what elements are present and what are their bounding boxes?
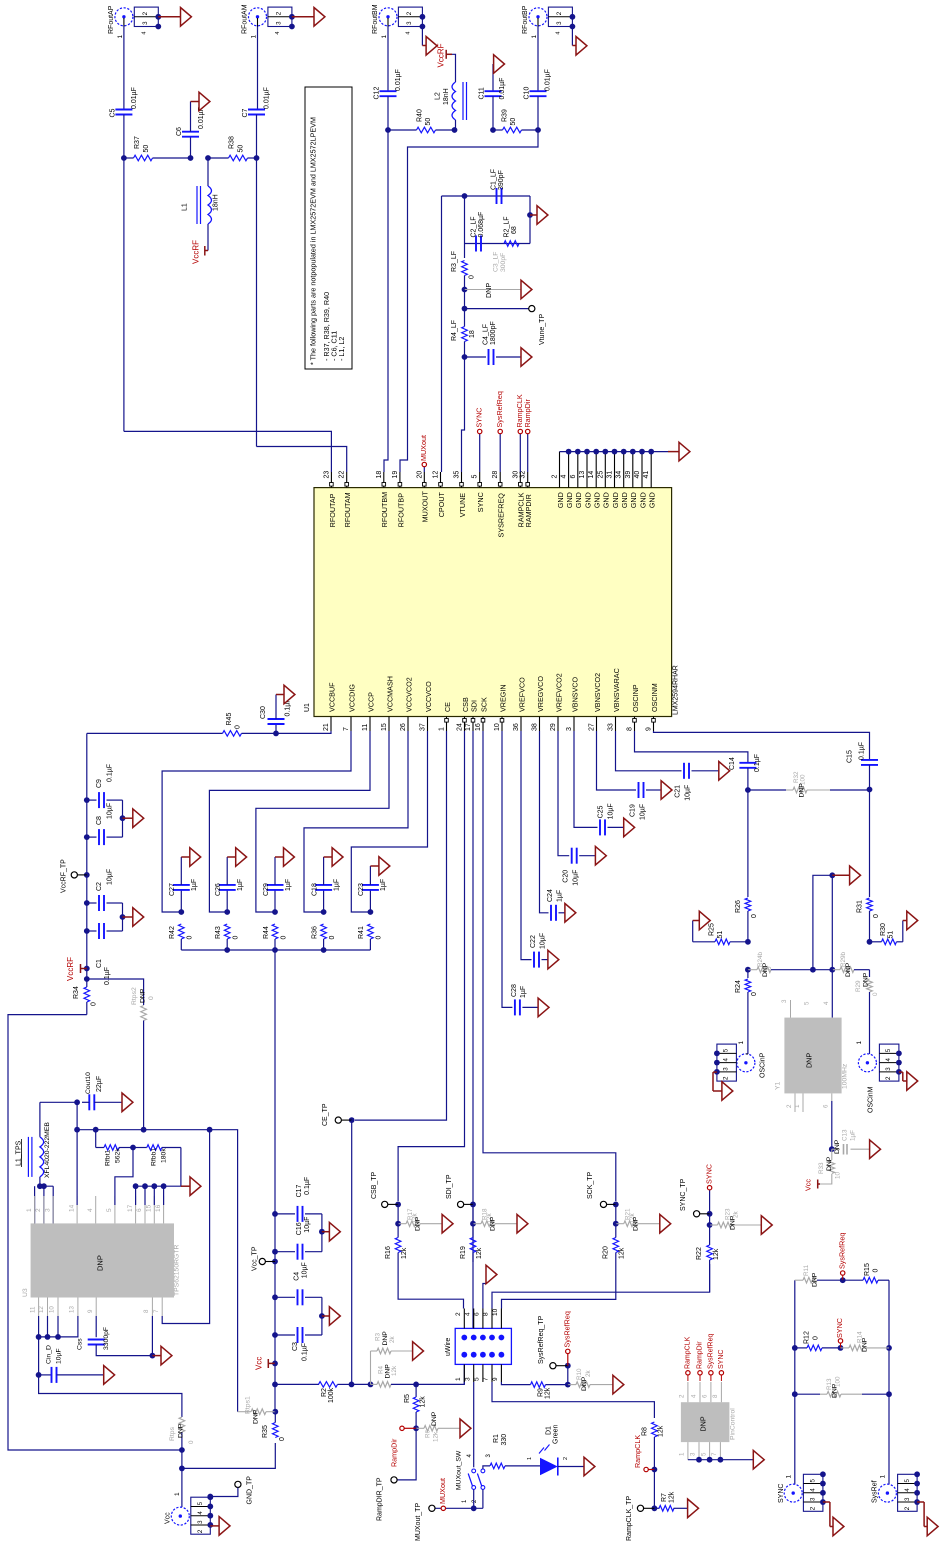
svg-text:0: 0 <box>234 725 241 729</box>
svg-text:R35: R35 <box>262 1425 269 1438</box>
svg-text:12k: 12k <box>419 1396 426 1408</box>
resistor R3_LF <box>462 261 468 276</box>
test point Vcc_TP <box>272 1259 278 1265</box>
svg-text:180k: 180k <box>161 1148 168 1163</box>
svg-text:5: 5 <box>197 1501 204 1505</box>
node <box>272 1332 278 1338</box>
ground <box>572 45 576 47</box>
wire <box>482 1489 484 1508</box>
svg-text:Cout10: Cout10 <box>85 1072 92 1094</box>
wire <box>351 1120 353 1384</box>
svg-text:50: 50 <box>237 145 244 153</box>
pin 12 of U3 <box>47 1298 49 1317</box>
IC PinControl DNP <box>681 1402 730 1442</box>
ground <box>275 856 284 858</box>
svg-text:SysRefReq: SysRefReq <box>837 1233 846 1269</box>
svg-text:300pF: 300pF <box>500 253 507 272</box>
svg-text:R41: R41 <box>358 926 365 939</box>
test point RampCLK_TP <box>644 1507 655 1509</box>
svg-text:12k: 12k <box>476 1247 483 1259</box>
test point MUXout_TP <box>429 1505 435 1511</box>
svg-text:6: 6 <box>136 1208 143 1212</box>
svg-text:4: 4 <box>823 1001 830 1005</box>
capacitor C26 <box>226 890 228 912</box>
svg-text:2: 2 <box>276 11 283 15</box>
svg-text:RampDir: RampDir <box>697 1341 704 1369</box>
resistor R32 DNP <box>748 789 786 791</box>
svg-text:U1: U1 <box>304 703 311 712</box>
svg-text:SYNC: SYNC <box>474 408 483 428</box>
svg-text:15: 15 <box>145 1204 152 1212</box>
svg-text:0: 0 <box>279 1437 286 1441</box>
node <box>385 127 391 133</box>
svg-text:TPS62150RGTR: TPS62150RGTR <box>174 1245 181 1296</box>
svg-text:C27: C27 <box>169 883 176 896</box>
wire Y1 pin4 <box>831 875 833 1017</box>
svg-text:Y1: Y1 <box>775 1081 782 1090</box>
svg-text:RFoutBP: RFoutBP <box>522 5 529 34</box>
capacitor C19 <box>597 731 637 790</box>
svg-text:C26: C26 <box>215 883 222 896</box>
ground <box>565 904 576 923</box>
svg-text:562k: 562k <box>115 1148 122 1163</box>
ground <box>181 856 190 858</box>
ground <box>660 1214 671 1233</box>
node <box>121 155 127 161</box>
svg-text:GND: GND <box>620 492 629 508</box>
capacitor C1_LF <box>496 188 498 204</box>
switch MUXout_SW <box>472 1469 476 1473</box>
svg-text:0.01µF: 0.01µF <box>499 78 506 100</box>
svg-text:C15: C15 <box>846 750 853 763</box>
node <box>838 1345 844 1351</box>
svg-text:17: 17 <box>127 1204 134 1212</box>
resistor R24 <box>747 970 749 978</box>
node <box>273 731 279 737</box>
svg-text:51: 51 <box>717 931 724 939</box>
node <box>178 909 184 915</box>
wire pin1 <box>463 1382 465 1384</box>
svg-text:0: 0 <box>280 936 287 940</box>
pin 5 of U3 <box>114 1196 116 1223</box>
svg-text:R39: R39 <box>501 109 508 122</box>
wire <box>416 1364 464 1384</box>
return line <box>181 949 370 951</box>
resistor R7 <box>654 1507 659 1509</box>
node <box>120 815 126 821</box>
wire OSCINP <box>635 731 748 763</box>
wire <box>122 800 124 837</box>
svg-text:SysRef: SysRef <box>871 1480 878 1503</box>
svg-text:C22: C22 <box>530 935 537 948</box>
svg-text:VBNSVCO2: VBNSVCO2 <box>593 673 602 712</box>
svg-text:0: 0 <box>188 1440 195 1444</box>
pin 7 VCCDIG <box>350 717 352 732</box>
svg-text:1: 1 <box>785 1475 792 1479</box>
svg-text:4: 4 <box>904 1488 911 1492</box>
capacitor C18 <box>323 890 325 912</box>
svg-text:RampDir: RampDir <box>389 1438 398 1467</box>
svg-text:8: 8 <box>712 1394 719 1398</box>
svg-text:2: 2 <box>197 1529 204 1533</box>
svg-text:Vtune_TP: Vtune_TP <box>539 314 546 345</box>
svg-text:VREGIN: VREGIN <box>498 684 507 712</box>
svg-text:SCK: SCK <box>479 697 488 712</box>
resistor R45 <box>223 731 242 737</box>
svg-text:R40: R40 <box>416 109 423 122</box>
svg-text:VTUNE: VTUNE <box>458 493 467 518</box>
svg-text:C29: C29 <box>263 883 270 896</box>
svg-text:Vcc: Vcc <box>803 1179 812 1191</box>
svg-text:GND: GND <box>583 492 592 508</box>
svg-text:22µF: 22µF <box>96 1076 103 1092</box>
ground <box>584 1457 595 1476</box>
wire pin6 gnd <box>483 1284 486 1309</box>
svg-text:RampCLK: RampCLK <box>633 1435 642 1468</box>
net SYNC <box>707 1186 711 1190</box>
capacitor C5 <box>123 27 125 110</box>
svg-text:GND_TP: GND_TP <box>246 1476 253 1505</box>
svg-text:12: 12 <box>432 471 439 479</box>
ground <box>870 1140 881 1159</box>
wire <box>558 1466 584 1468</box>
svg-text:10µF: 10µF <box>302 1262 309 1278</box>
svg-text:41: 41 <box>643 471 650 479</box>
svg-text:VCCBUF: VCCBUF <box>327 682 336 712</box>
pin 18 RFOUTBM <box>383 472 385 488</box>
wire header pin3 to switch <box>473 1382 475 1467</box>
wire to RFOUTBP pin <box>400 130 538 472</box>
svg-text:2: 2 <box>723 1076 730 1080</box>
svg-text:4: 4 <box>87 1208 94 1212</box>
ground <box>123 916 133 918</box>
svg-text:R12: R12 <box>803 1331 810 1344</box>
wire MUXout line <box>435 1507 483 1509</box>
resistor R11 DNP <box>795 1279 803 1281</box>
LED D1 Green <box>541 1459 557 1475</box>
node <box>395 1221 401 1227</box>
resistor R24b DNP <box>748 969 757 971</box>
svg-text:9: 9 <box>645 727 652 731</box>
svg-text:1: 1 <box>738 1041 745 1045</box>
svg-text:0: 0 <box>232 936 239 940</box>
net SysRefReq <box>499 434 501 472</box>
pin 13 GND <box>586 452 588 488</box>
wire <box>151 1316 153 1356</box>
resistor R15 <box>843 1279 863 1281</box>
pin 23 RFOUTAP <box>330 472 332 488</box>
pin 5 SYNC <box>479 472 481 488</box>
svg-text:R11: R11 <box>803 1264 810 1276</box>
svg-text:R25: R25 <box>708 923 715 936</box>
pin 24 CSB <box>464 717 466 732</box>
svg-text:10: 10 <box>492 1308 499 1316</box>
svg-text:5: 5 <box>723 1048 730 1052</box>
resistor R29b DNP <box>813 969 832 971</box>
wire <box>40 1177 53 1186</box>
wire <box>465 243 531 245</box>
resistor R18 DNP <box>473 1223 481 1225</box>
pin 41 GND <box>650 452 652 488</box>
svg-text:CE: CE <box>443 702 452 712</box>
power flag Vcc <box>272 1361 278 1367</box>
svg-text:5: 5 <box>700 1452 707 1456</box>
svg-text:Green: Green <box>552 1424 559 1444</box>
svg-text:5: 5 <box>473 1377 480 1381</box>
svg-text:18: 18 <box>469 330 476 338</box>
svg-text:DNP: DNP <box>382 1331 389 1346</box>
svg-text:12k: 12k <box>391 1365 398 1376</box>
svg-text:SYNC: SYNC <box>835 1318 844 1338</box>
svg-text:CPOUT: CPOUT <box>437 491 446 517</box>
svg-text:MUXout: MUXout <box>419 435 428 461</box>
wire <box>136 1148 181 1187</box>
wire <box>464 290 466 309</box>
svg-text:50: 50 <box>143 145 150 153</box>
svg-text:18nH: 18nH <box>443 88 450 105</box>
svg-text:RFoutBM: RFoutBM <box>372 4 379 34</box>
svg-text:R30: R30 <box>880 923 887 936</box>
pin 14 GND <box>595 452 597 488</box>
capacitor C24 <box>540 731 549 913</box>
svg-text:51: 51 <box>887 931 894 939</box>
svg-text:2k: 2k <box>585 1369 592 1377</box>
svg-text:VccRF_TP: VccRF_TP <box>60 859 67 893</box>
svg-text:38: 38 <box>531 723 538 731</box>
pin 21 VCCBUF <box>330 717 332 732</box>
svg-text:0.01µF: 0.01µF <box>131 87 138 109</box>
ground <box>210 1525 219 1527</box>
svg-text:68: 68 <box>511 226 518 234</box>
wire <box>182 1443 275 1468</box>
wire from pin 37 <box>351 731 427 912</box>
pin 7 of U3 <box>161 1298 163 1317</box>
pin 4 GND <box>568 452 570 488</box>
svg-text:5: 5 <box>904 1479 911 1483</box>
svg-text:36: 36 <box>513 723 520 731</box>
pin 25 GND <box>604 452 606 488</box>
resistor R37 <box>134 155 153 161</box>
svg-text:C19: C19 <box>629 804 636 817</box>
svg-text:RampCLK_TP: RampCLK_TP <box>626 1496 633 1541</box>
ground <box>486 1265 497 1284</box>
note box <box>305 87 352 369</box>
svg-text:10µF: 10µF <box>56 1348 63 1364</box>
ground <box>442 1214 453 1233</box>
resistor R23 DNP <box>710 1224 718 1226</box>
pin 35 VTUNE <box>461 472 463 488</box>
svg-text:MUXout: MUXout <box>438 1478 447 1504</box>
svg-text:DNP: DNP <box>431 1411 438 1426</box>
svg-text:C5: C5 <box>109 108 116 117</box>
svg-text:330: 330 <box>501 1434 508 1446</box>
test point SDI_TP <box>470 1202 476 1208</box>
svg-text:R22: R22 <box>696 1247 703 1260</box>
svg-text:12k: 12k <box>668 1491 675 1503</box>
resistor R5 <box>415 1384 417 1397</box>
capacitor C8 <box>87 836 97 838</box>
svg-text:SysRefReq_TP: SysRefReq_TP <box>538 1315 545 1364</box>
svg-text:Vcc: Vcc <box>164 1512 171 1524</box>
ground <box>292 16 314 18</box>
wire <box>321 1214 323 1252</box>
svg-text:0: 0 <box>751 914 758 918</box>
svg-text:0.1µF: 0.1µF <box>754 754 761 772</box>
svg-text:VccRF: VccRF <box>192 240 201 264</box>
wire <box>653 1470 655 1509</box>
resistor R14 DNP <box>841 1347 850 1349</box>
pin 16 of U3 <box>163 1196 165 1223</box>
resistor R44 <box>272 924 278 939</box>
resistor R34 <box>86 979 88 987</box>
wire <box>571 27 573 46</box>
capacitor Css <box>95 1316 97 1337</box>
svg-text:14: 14 <box>588 471 595 479</box>
svg-text:DNP: DNP <box>632 1216 639 1231</box>
svg-text:R34: R34 <box>73 986 80 999</box>
svg-text:0: 0 <box>872 1269 879 1273</box>
net RampCLK <box>648 1469 654 1471</box>
svg-text:1: 1 <box>381 35 388 39</box>
svg-text:0.1µF: 0.1µF <box>104 967 111 985</box>
wire <box>181 1450 183 1507</box>
ground <box>322 1315 330 1317</box>
node <box>565 1382 571 1388</box>
svg-text:C3_LF: C3_LF <box>493 252 500 272</box>
ground <box>713 1071 717 1073</box>
wire <box>34 1186 36 1223</box>
pin 3 of Y1 <box>790 1000 792 1018</box>
wire switch to R1 <box>483 1466 490 1469</box>
svg-text:Rtps1: Rtps1 <box>245 1396 252 1414</box>
test point CSB_TP <box>395 1202 401 1208</box>
svg-text:6: 6 <box>823 1104 830 1108</box>
wire from pin 11 <box>209 731 370 912</box>
node <box>745 787 751 793</box>
svg-text:27: 27 <box>588 723 595 731</box>
svg-text:Cin_D: Cin_D <box>46 1345 53 1364</box>
wire <box>123 18 125 27</box>
ground <box>613 1375 624 1394</box>
svg-text:1µF: 1µF <box>850 1130 857 1141</box>
svg-text:Rfbt1: Rfbt1 <box>105 1150 112 1166</box>
svg-text:C4: C4 <box>294 1272 301 1281</box>
svg-text:3: 3 <box>276 21 283 25</box>
svg-text:0.01µF: 0.01µF <box>544 69 551 91</box>
wire pin8 <box>492 1264 710 1309</box>
svg-text:C14: C14 <box>729 757 736 770</box>
resistor R41 <box>368 924 374 939</box>
svg-text:2: 2 <box>556 11 563 15</box>
capacitor C16 <box>275 1251 295 1253</box>
svg-text:7: 7 <box>153 1309 160 1313</box>
svg-text:RFOUTAP: RFOUTAP <box>328 493 337 527</box>
svg-text:2: 2 <box>142 11 149 15</box>
IC U1 LMX2594RHAR <box>314 488 672 717</box>
svg-text:DNP: DNP <box>826 1156 833 1171</box>
ground <box>530 214 537 216</box>
svg-text:1: 1 <box>856 1041 863 1045</box>
pin 38 VREGVCO <box>539 717 541 732</box>
pin 6 of PinControl <box>710 1382 712 1402</box>
ground <box>227 856 236 858</box>
svg-text:33: 33 <box>607 723 614 731</box>
ground <box>719 762 730 781</box>
svg-text:R5: R5 <box>404 1394 411 1403</box>
svg-text:1µF: 1µF <box>520 986 527 998</box>
svg-text:OSCinP: OSCinP <box>759 1052 766 1078</box>
svg-text:R44: R44 <box>263 926 270 939</box>
connector SYNC <box>784 1484 802 1502</box>
ground <box>668 451 679 453</box>
capacitor C7 <box>257 27 259 110</box>
svg-text:Css: Css <box>77 1338 84 1350</box>
svg-text:4: 4 <box>561 475 568 479</box>
svg-text:R42: R42 <box>169 926 176 939</box>
svg-text:C2: C2 <box>96 882 103 891</box>
svg-text:DNP: DNP <box>799 783 806 798</box>
TPS62150 U3 DNP block <box>31 1223 174 1297</box>
svg-text:18: 18 <box>376 471 383 479</box>
svg-text:R26: R26 <box>735 900 742 913</box>
capacitor C17 <box>275 1213 295 1215</box>
svg-text:C7: C7 <box>242 108 249 117</box>
wire <box>441 196 443 472</box>
svg-text:0.1µF: 0.1µF <box>858 742 865 760</box>
net RampCLK <box>519 434 521 472</box>
net SysRefReq <box>567 1354 569 1366</box>
pin 1 of PinControl <box>687 1442 689 1460</box>
svg-text:MUXout_SW: MUXout_SW <box>456 1450 463 1490</box>
svg-text:3: 3 <box>690 1452 697 1456</box>
resistor R19 <box>472 1204 474 1223</box>
resistor R2_LF <box>504 241 519 247</box>
svg-text:SysRefReq: SysRefReq <box>562 1311 571 1347</box>
resistor R12 <box>795 1347 807 1349</box>
svg-text:MUXout_TP: MUXout_TP <box>415 1503 422 1541</box>
node <box>321 909 327 915</box>
wire <box>464 342 466 358</box>
pin 19 RFOUTBP <box>399 472 401 488</box>
resistor R9 <box>531 1382 546 1388</box>
svg-text:R38: R38 <box>228 136 235 149</box>
pin 39 GND <box>632 452 634 488</box>
svg-text:0: 0 <box>187 936 194 940</box>
svg-text:OSCINP: OSCINP <box>631 684 640 712</box>
wire <box>709 1190 711 1238</box>
svg-text:4: 4 <box>885 1058 892 1062</box>
pin 31 GND <box>614 452 616 488</box>
resistor R16 <box>397 1204 399 1223</box>
node <box>867 939 873 945</box>
ground <box>548 950 559 969</box>
svg-text:0: 0 <box>751 992 758 996</box>
net SysRefReq <box>841 1271 845 1275</box>
pin 20 MUXOUT <box>423 472 425 488</box>
wire CSB net <box>398 731 464 1201</box>
ground <box>104 1366 115 1385</box>
svg-text:DNP: DNP <box>862 1337 869 1352</box>
ground <box>422 45 426 47</box>
wire <box>321 1297 323 1335</box>
svg-text:3300pF: 3300pF <box>103 1327 110 1350</box>
pin 16 SCK <box>482 717 484 732</box>
svg-text:12k: 12k <box>544 1387 551 1399</box>
svg-text:2: 2 <box>786 1104 793 1108</box>
pin 1 of U3 <box>34 1196 36 1223</box>
connector RFoutAM <box>249 8 267 26</box>
svg-text:1: 1 <box>174 1492 181 1496</box>
